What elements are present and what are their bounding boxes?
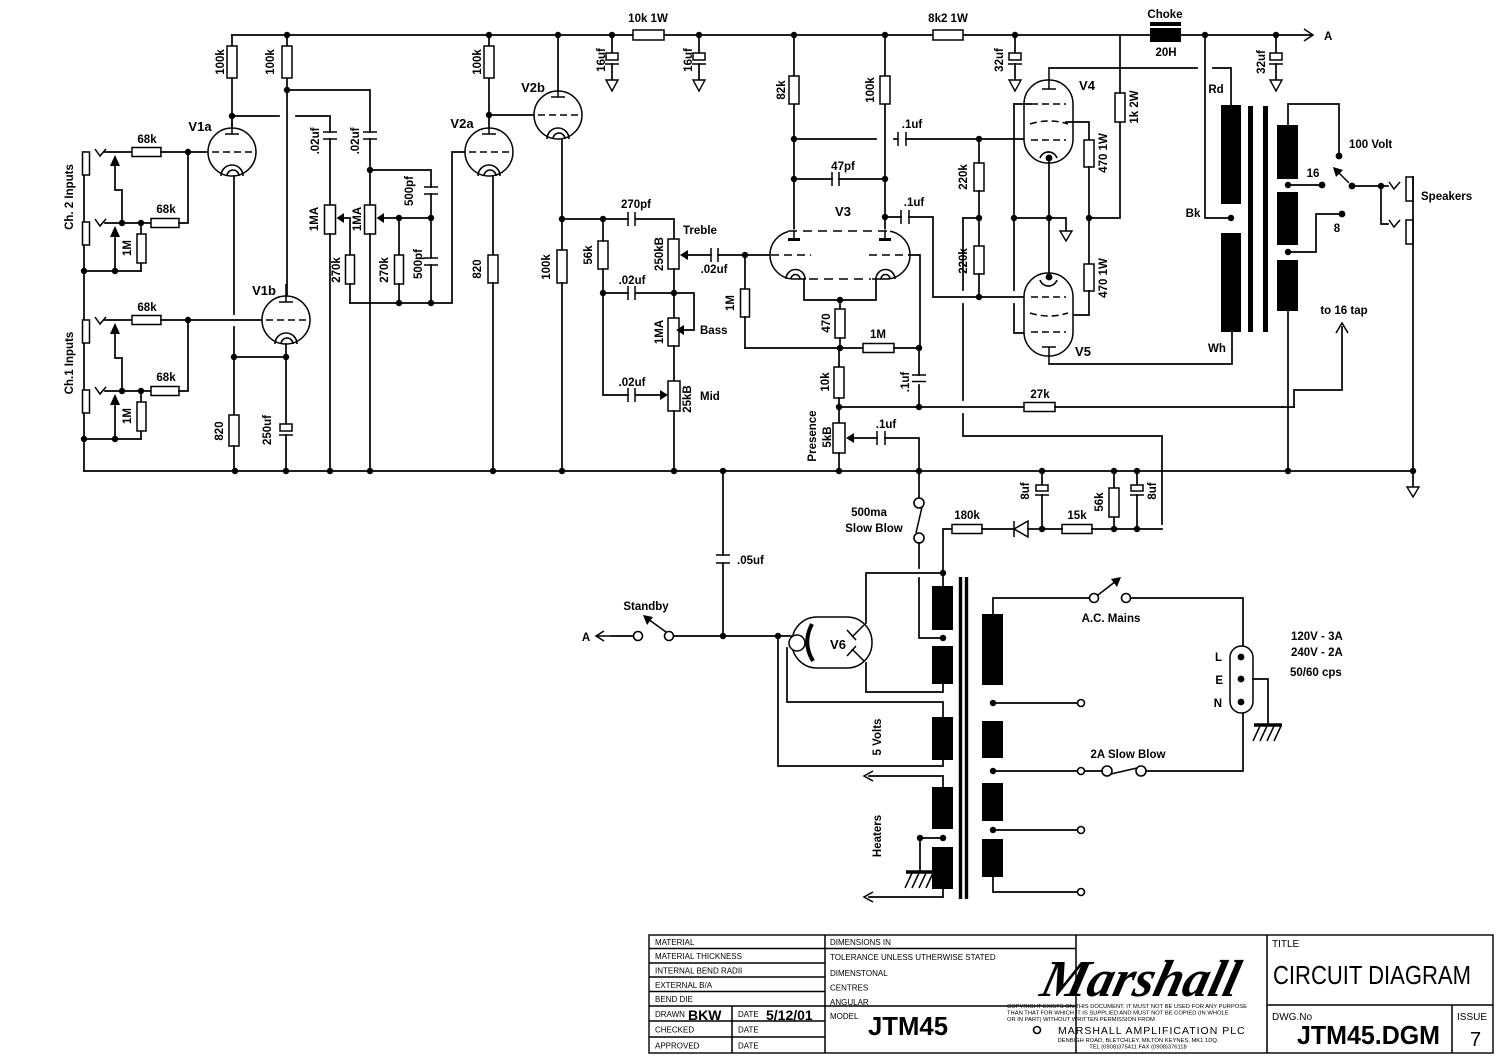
jack ch2 shorting contact arrow 2 <box>110 226 120 271</box>
svg-text:120V - 3A: 120V - 3A <box>1291 631 1343 643</box>
ground (hollow arrow below 16uf #2) <box>693 80 705 91</box>
svg-text:Slow Blow: Slow Blow <box>845 523 903 535</box>
node ch1 return arrow4 <box>112 436 118 442</box>
transformer mains primary winding <box>982 614 1003 877</box>
resistor 56k (bias divider to ground) <box>1094 468 1119 532</box>
wire ch2 lower return line <box>84 270 141 272</box>
svg-text:47pf: 47pf <box>831 161 855 173</box>
wire treble wiper to .02uf <box>688 254 711 256</box>
connector mains L E N <box>1214 646 1253 713</box>
svg-text:820: 820 <box>472 259 484 278</box>
svg-text:25kB: 25kB <box>682 385 694 413</box>
svg-text:180k: 180k <box>954 510 980 522</box>
svg-text:BEND DIE: BEND DIE <box>655 995 693 1004</box>
resistor 1M (NFB divider) <box>863 329 922 353</box>
node ch1 wiper junction <box>428 215 434 221</box>
wire V4 screen tap <box>1066 122 1089 140</box>
resistor 100k (V2a plate load) <box>472 32 494 128</box>
capacitor 47pf (phase inverter) <box>791 161 888 186</box>
jack Ch.2 input 1 <box>83 149 107 175</box>
svg-text:220k: 220k <box>958 248 970 274</box>
switch impedance selector <box>1333 167 1381 189</box>
svg-text:27k: 27k <box>1030 389 1050 401</box>
wire 68k-3 to V1b grid <box>161 319 262 321</box>
svg-text:100 Volt: 100 Volt <box>1349 139 1392 151</box>
node rectifier output junction <box>775 633 781 639</box>
svg-text:A: A <box>1324 31 1332 43</box>
node ch1 bright junction top <box>367 167 373 173</box>
resistor 220k (V4 grid leak) <box>958 139 984 218</box>
wire HT top into winding <box>942 573 944 586</box>
svg-text:to 16 tap: to 16 tap <box>1320 305 1367 317</box>
svg-text:DATE: DATE <box>738 1026 759 1035</box>
wire bias stub <box>963 217 979 219</box>
svg-text:16: 16 <box>1307 168 1320 180</box>
svg-text:270k: 270k <box>331 257 343 283</box>
capacitor 32uf (screen filter) <box>994 32 1022 80</box>
ground chassis (mains earth) <box>1253 679 1282 741</box>
wire treble bottom <box>673 269 675 318</box>
triode V1a <box>188 116 256 176</box>
svg-text:.02uf: .02uf <box>619 275 646 287</box>
transformer mains core <box>961 577 967 899</box>
svg-text:100k: 100k <box>472 49 484 75</box>
svg-text:10k 1W: 10k 1W <box>628 13 668 25</box>
svg-text:V3: V3 <box>835 204 851 219</box>
svg-text:220k: 220k <box>958 164 970 190</box>
svg-text:820: 820 <box>214 421 226 440</box>
wire V1a cathode down (hops V1b grid line) <box>233 176 235 415</box>
fuse 500ma slow blow (HT centre tap) <box>845 471 943 638</box>
resistor 10k (tail lower) <box>820 348 844 407</box>
svg-text:OR IN PART) WITHOUT WRITTEN PE: OR IN PART) WITHOUT WRITTEN PERMISSION F… <box>1007 1017 1155 1023</box>
resistor 1M (V3 grid leak) <box>725 255 749 348</box>
node 1M V3 grid leak top <box>742 252 748 258</box>
svg-text:.1uf: .1uf <box>904 197 925 209</box>
svg-text:1MA: 1MA <box>352 207 364 231</box>
potentiometer 25kB Mid <box>660 381 720 413</box>
svg-text:1M: 1M <box>122 240 134 256</box>
wire V6 plate 2 to HT bottom <box>866 663 943 692</box>
wire Bk riser (post-choke to OT centre tap) <box>1186 35 1235 221</box>
svg-text:470 1W: 470 1W <box>1098 258 1110 298</box>
capacitor .02uf (ch2 coupling) <box>310 127 337 205</box>
wire V1b plate to coupling cap B <box>287 90 370 132</box>
svg-text:Wh: Wh <box>1208 343 1226 355</box>
svg-text:V1a: V1a <box>188 119 212 134</box>
label to 16 tap with arrow <box>1320 305 1367 333</box>
ground (hollow arrow speaker return) <box>1407 471 1419 497</box>
wire V2b plate to rail <box>555 32 561 98</box>
wire V1a plate to coupling cap A (hops V1b riser) <box>232 116 330 132</box>
svg-text:CIRCUIT DIAGRAM: CIRCUIT DIAGRAM <box>1273 960 1471 990</box>
resistor 820 (V1 shared cathode) <box>214 415 239 471</box>
wire V4 beam plates to ground riser <box>1014 103 1031 105</box>
wire NFB node line (10k/presence to 27k) <box>836 404 1024 410</box>
svg-text:TITLE: TITLE <box>1272 939 1300 950</box>
wire 8 ohm tap <box>1285 211 1346 256</box>
node jack4/shorting junction <box>119 388 125 394</box>
potentiometer 250kB Treble <box>654 225 717 271</box>
svg-text:E: E <box>1215 675 1223 687</box>
resistor 68k (ch1 input 1) <box>132 302 161 325</box>
node post-choke junction (to Bk) <box>1202 32 1208 38</box>
wire top rail <box>232 34 1312 36</box>
wire beam riser (V4/V5 beam plates, hops V5 grid line) <box>1014 104 1031 333</box>
svg-text:V4: V4 <box>1079 78 1096 93</box>
node 56k bottom junction <box>600 290 606 296</box>
node A arrowhead right end <box>1304 29 1313 41</box>
svg-text:1MA: 1MA <box>309 207 321 231</box>
resistor 10k 1W <box>628 13 668 40</box>
svg-text:.02uf: .02uf <box>619 377 646 389</box>
jack Ch.1 input 2 <box>83 387 107 413</box>
ground (hollow arrow below 32uf #2) <box>1270 80 1282 91</box>
wire mixer output bus to V2a grid <box>350 152 466 306</box>
resistor 820 (V2a cathode) <box>472 255 498 471</box>
node V4 grid junction <box>976 136 982 142</box>
svg-text:100k: 100k <box>265 49 277 75</box>
pentode V4 <box>1024 68 1096 163</box>
resistor 1M (ch2 grid leak) <box>122 223 146 271</box>
potentiometer 5kB Presence <box>807 407 854 471</box>
ground (hollow arrow below 16uf #1) <box>606 80 618 91</box>
wire speaker jack sleeves to ground <box>1412 177 1414 471</box>
capacitor 16uf (second filter) <box>683 32 706 80</box>
svg-text:TEL (0908)375411 FAX (0908)376: TEL (0908)375411 FAX (0908)376118 <box>1089 1045 1187 1051</box>
node ch2 return arrow2 <box>112 268 118 274</box>
resistor 1k 2W (screen feed) <box>1115 35 1141 124</box>
svg-text:DATE: DATE <box>738 1042 759 1051</box>
diode bias rectifier <box>1014 521 1042 537</box>
node heater centre tap <box>917 835 946 871</box>
resistor 27k (NFB) <box>1024 389 1294 412</box>
node V1a plate junction <box>229 113 235 119</box>
wire V4/V5 cathode link <box>1048 162 1050 274</box>
resistor 180k (bias feed) <box>943 510 1014 573</box>
wire ch2 volume bottom to ground <box>329 234 331 471</box>
capacitor 8uf (bias filter 2) <box>1130 468 1159 532</box>
svg-text:240V - 2A: 240V - 2A <box>1291 647 1343 659</box>
svg-text:.1uf: .1uf <box>900 372 912 393</box>
svg-text:8k2 1W: 8k2 1W <box>928 13 968 25</box>
svg-text:MODEL: MODEL <box>830 1012 859 1021</box>
transformer mains heater winding <box>864 771 953 902</box>
svg-text:100k: 100k <box>541 254 553 280</box>
svg-text:CHECKED: CHECKED <box>655 1026 694 1035</box>
svg-text:82k: 82k <box>776 80 788 100</box>
transformer mains HT winding <box>932 586 953 684</box>
resistor 56k (tone slope) <box>583 219 608 293</box>
wire V5 plate to OT Wh <box>1049 332 1232 364</box>
svg-text:.02uf: .02uf <box>350 127 362 154</box>
wire jack3 tip to 68k <box>105 319 132 321</box>
resistor 100k (V3 right plate load) <box>865 32 890 231</box>
rectifier V6 <box>789 617 872 668</box>
wire 68k-2 up to grid node <box>179 152 188 223</box>
node HT top junction <box>940 570 946 576</box>
svg-text:MARSHALL AMPLIFICATION PLC: MARSHALL AMPLIFICATION PLC <box>1058 1025 1246 1037</box>
capacitor .02uf (bass cap) <box>603 275 674 300</box>
svg-text:APPROVED: APPROVED <box>655 1042 700 1051</box>
resistor 270k (ch1 mixer) <box>379 218 403 303</box>
node: main ground bus <box>84 468 1416 474</box>
svg-text:7: 7 <box>1470 1029 1481 1051</box>
node standby/.05uf junction <box>720 633 726 639</box>
capacitor 250uf (cathode bypass) <box>262 415 293 471</box>
capacitor 32uf (main reservoir) <box>1256 32 1283 80</box>
svg-text:10k: 10k <box>820 372 832 392</box>
svg-text:250uf: 250uf <box>262 415 274 445</box>
wire V3 right grid riser (NFB) <box>909 255 920 348</box>
svg-text:100k: 100k <box>215 49 227 75</box>
svg-text:.05uf: .05uf <box>737 555 764 567</box>
svg-text:100k: 100k <box>865 77 877 103</box>
ground (hollow arrow V4/V5 cathodes) <box>1060 231 1072 241</box>
wire V2a plate to V2b grid <box>489 114 534 116</box>
wire jack1 tip to 68k <box>105 151 132 153</box>
capacitor .1uf (to V4 grid, hops V3 right riser) <box>791 119 979 146</box>
svg-text:EXTERNAL B/A: EXTERNAL B/A <box>655 981 713 990</box>
resistor 100k (cathode follower load) <box>541 250 567 471</box>
svg-text:2A Slow Blow: 2A Slow Blow <box>1091 749 1166 761</box>
svg-text:Standby: Standby <box>623 601 669 613</box>
node cathode follower output <box>559 216 565 222</box>
svg-text:L: L <box>1215 652 1222 664</box>
svg-text:50/60 cps: 50/60 cps <box>1290 667 1342 679</box>
resistor 100k (V1b plate load) <box>265 32 292 302</box>
double triode V3 (phase inverter) <box>770 204 910 279</box>
svg-text:16uf: 16uf <box>683 48 695 72</box>
capacitor 8uf (bias filter 1) <box>1020 468 1049 529</box>
wire 68k to V1a grid <box>161 151 208 153</box>
svg-text:DIMENSTONAL: DIMENSTONAL <box>830 969 888 978</box>
svg-text:DENBIGH ROAD, BLETCHLEY, MILTO: DENBIGH ROAD, BLETCHLEY, MILTON KEYNES, … <box>1057 1038 1218 1044</box>
jack ch2 shorting contact arrow 1 <box>110 155 122 223</box>
wire ch1 lower return line <box>84 438 141 440</box>
jack Ch.1 input 1 <box>83 317 107 343</box>
svg-text:56k: 56k <box>583 245 595 265</box>
label mains ratings <box>1290 631 1343 679</box>
svg-text:16uf: 16uf <box>596 48 608 72</box>
svg-text:8uf: 8uf <box>1147 482 1159 499</box>
triode V2a <box>450 116 513 176</box>
resistor 220k (V5 grid leak) <box>958 218 984 297</box>
svg-text:Heaters: Heaters <box>872 815 884 857</box>
triode V2b <box>521 80 582 139</box>
node V3 cathode bias junction <box>745 345 863 351</box>
svg-text:68k: 68k <box>156 204 176 216</box>
svg-text:V2a: V2a <box>450 116 474 131</box>
node screen bus junction <box>1086 122 1120 221</box>
svg-text:V6: V6 <box>830 637 846 652</box>
svg-text:DIMENSIONS IN: DIMENSIONS IN <box>830 938 891 947</box>
terminal primary tap 2 <box>990 827 1085 834</box>
svg-text:68k: 68k <box>156 372 176 384</box>
svg-text:1MA: 1MA <box>654 320 666 344</box>
node bias node 1 <box>1039 526 1045 532</box>
wire V1b cathode join <box>231 344 289 424</box>
svg-text:THAN THAT FOR WHICH IT IS SUPP: THAN THAT FOR WHICH IT IS SUPPLIED AND M… <box>1007 1011 1229 1017</box>
svg-text:Speakers: Speakers <box>1421 191 1472 203</box>
title block middle column texts <box>830 938 996 1041</box>
svg-text:Presence: Presence <box>807 410 819 461</box>
svg-text:Bk: Bk <box>1186 208 1201 220</box>
svg-text:Marshall: Marshall <box>1034 951 1246 1008</box>
svg-text:5/12/01: 5/12/01 <box>766 1007 813 1023</box>
svg-text:DRAWN: DRAWN <box>655 1010 685 1019</box>
title block copyright small print <box>1007 1004 1247 1051</box>
svg-text:15k: 15k <box>1067 510 1087 522</box>
node HT centre tap <box>940 635 946 641</box>
svg-text:500ma: 500ma <box>851 507 887 519</box>
jack Ch.2 input 2 <box>83 219 107 245</box>
svg-text:250kB: 250kB <box>654 237 666 271</box>
svg-text:5kB: 5kB <box>822 426 834 447</box>
wire V3 cathodes join <box>804 279 876 303</box>
svg-text:1M: 1M <box>122 408 134 424</box>
node ch2 grid junction <box>185 149 191 155</box>
transformer output secondary winding <box>1277 125 1298 311</box>
jack ch1 shorting contact arrow 4 <box>110 394 120 439</box>
jack ch1 shorting contact arrow 3 <box>110 323 122 391</box>
node V1b plate junction <box>284 87 290 93</box>
svg-text:500pf: 500pf <box>413 249 425 279</box>
svg-text:56k: 56k <box>1094 492 1106 512</box>
svg-text:JTM45: JTM45 <box>868 1011 948 1041</box>
svg-text:.1uf: .1uf <box>902 119 923 131</box>
svg-text:500pf: 500pf <box>404 176 416 206</box>
wire V4 grid line into tube <box>979 138 1028 140</box>
capacitor 500pf (ch1 mixer bypass) <box>413 218 438 303</box>
svg-text:20H: 20H <box>1155 47 1176 59</box>
svg-text:ISSUE: ISSUE <box>1457 1012 1487 1023</box>
svg-text:Choke: Choke <box>1147 9 1182 21</box>
svg-text:1M: 1M <box>725 295 737 311</box>
svg-text:N: N <box>1214 698 1222 710</box>
transformer output core <box>1251 106 1266 332</box>
svg-text:8: 8 <box>1334 223 1341 235</box>
svg-text:470 1W: 470 1W <box>1098 133 1110 173</box>
node V5 grid junction <box>976 294 982 300</box>
title block left column texts <box>655 938 813 1051</box>
wire mid bottom to ground <box>673 411 675 471</box>
svg-text:MATERIAL THICKNESS: MATERIAL THICKNESS <box>655 952 742 961</box>
wire 27k to 16 tap (jog) <box>1282 327 1342 407</box>
jack speaker 1 <box>1381 177 1413 201</box>
resistor 68k (ch1 input 2) <box>151 372 179 396</box>
svg-text:5 Volts: 5 Volts <box>872 719 884 756</box>
capacitor 270pf (treble cap) <box>621 199 651 226</box>
ground (hollow arrow below 32uf #1) <box>1009 80 1021 91</box>
svg-text:MATERIAL: MATERIAL <box>655 938 695 947</box>
wire bias feed riser (hops grid and NFB lines) <box>963 218 1162 524</box>
svg-text:V2b: V2b <box>521 80 545 95</box>
title block right column <box>1272 939 1487 1051</box>
svg-text:8uf: 8uf <box>1020 482 1032 499</box>
wire CF output to treble top <box>562 219 674 239</box>
svg-text:V5: V5 <box>1075 344 1091 359</box>
svg-text:.02uf: .02uf <box>701 264 728 276</box>
capacitor .05uf (standby) <box>716 468 764 636</box>
terminal primary bottom <box>993 877 1085 896</box>
svg-text:.1uf: .1uf <box>876 419 897 431</box>
capacitor 16uf (first filter) <box>596 32 619 80</box>
capacitor .02uf (treble to V3 grid) <box>701 248 771 276</box>
node bias junction <box>976 215 982 221</box>
node jack2/shorting junction <box>119 220 125 226</box>
svg-text:TOLERANCE UNLESS UTHERWISE ST: TOLERANCE UNLESS UTHERWISE STATED <box>830 953 996 962</box>
svg-text:Mid: Mid <box>700 391 720 403</box>
triode V1b <box>252 283 310 344</box>
ground chassis (heater CT) <box>905 872 934 888</box>
node treble bottom / bass top junction <box>671 290 677 296</box>
resistor 68k (ch2 input 2) <box>151 204 179 228</box>
wire jack2 tip line <box>105 222 151 224</box>
svg-text:Ch.1 Inputs: Ch.1 Inputs <box>64 332 76 395</box>
wire V6 plate 1 to HT top <box>866 573 943 623</box>
node ch1 grid junction <box>185 317 191 323</box>
wire V5 grid line into tube <box>979 296 1028 298</box>
svg-text:INTERNAL BEND RADII: INTERNAL BEND RADII <box>655 967 742 976</box>
resistor 470 1W (V4 screen) <box>1084 133 1110 218</box>
resistor 270k (ch2 mixer) <box>331 255 354 303</box>
node cathode ground bus <box>1011 215 1066 231</box>
wire standby to V6 filament <box>674 635 791 637</box>
svg-text:68k: 68k <box>137 134 157 146</box>
potentiometer 1MA (ch2 volume) <box>309 205 350 255</box>
resistor 470 1W (V5 screen) <box>1070 218 1110 315</box>
fuse 2A Slow Blow <box>990 713 1243 776</box>
svg-text:32uf: 32uf <box>1256 50 1268 74</box>
node V2a plate junction <box>486 112 492 118</box>
svg-text:32uf: 32uf <box>994 48 1006 72</box>
svg-text:COPYRIGHT EXISTS ON THIS DOCUM: COPYRIGHT EXISTS ON THIS DOCUMENT. IT MU… <box>1007 1004 1247 1010</box>
capacitor .1uf (to V5 grid) <box>882 197 979 297</box>
resistor 15k (bias divider) <box>1042 510 1162 534</box>
switch Standby <box>582 601 674 644</box>
wire V4 plate to OT Rd (hops Bk riser) <box>1049 68 1231 105</box>
svg-text:Rd: Rd <box>1208 84 1223 96</box>
svg-text:68k: 68k <box>137 302 157 314</box>
wire ch1 volume bottom to ground <box>369 234 371 471</box>
choke 20H <box>1147 9 1182 59</box>
resistor 100k (V1a plate load) <box>215 35 237 134</box>
transformer mains 5V winding <box>778 636 953 766</box>
wire 16 ohm tap <box>1285 168 1326 188</box>
capacitor .1uf (NFB shunt) <box>900 348 926 407</box>
wire V2a cathode down <box>492 176 494 255</box>
svg-text:A.C. Mains: A.C. Mains <box>1082 613 1141 625</box>
resistor 470 (V3 tail upper) <box>821 300 845 348</box>
capacitor .02uf (ch1 coupling) <box>350 127 377 205</box>
svg-text:BKW: BKW <box>688 1007 722 1023</box>
svg-text:JTM45.DGM: JTM45.DGM <box>1297 1020 1440 1050</box>
title block frame <box>649 935 1493 1053</box>
wire secondary bottom to ground bus <box>1287 311 1289 471</box>
svg-text:1M: 1M <box>870 329 886 341</box>
svg-text:270k: 270k <box>379 257 391 283</box>
svg-text:470: 470 <box>821 313 833 332</box>
svg-text:Treble: Treble <box>683 225 717 237</box>
node 56k tap <box>600 216 606 222</box>
node ch1 return on bus <box>81 436 87 442</box>
wire jack4 tip line <box>105 390 151 392</box>
terminal primary tap 1 <box>990 700 1085 707</box>
svg-text:CENTRES: CENTRES <box>830 984 868 993</box>
node 270k-B top <box>396 215 402 221</box>
resistor 1M (ch1 grid leak) <box>122 391 146 439</box>
